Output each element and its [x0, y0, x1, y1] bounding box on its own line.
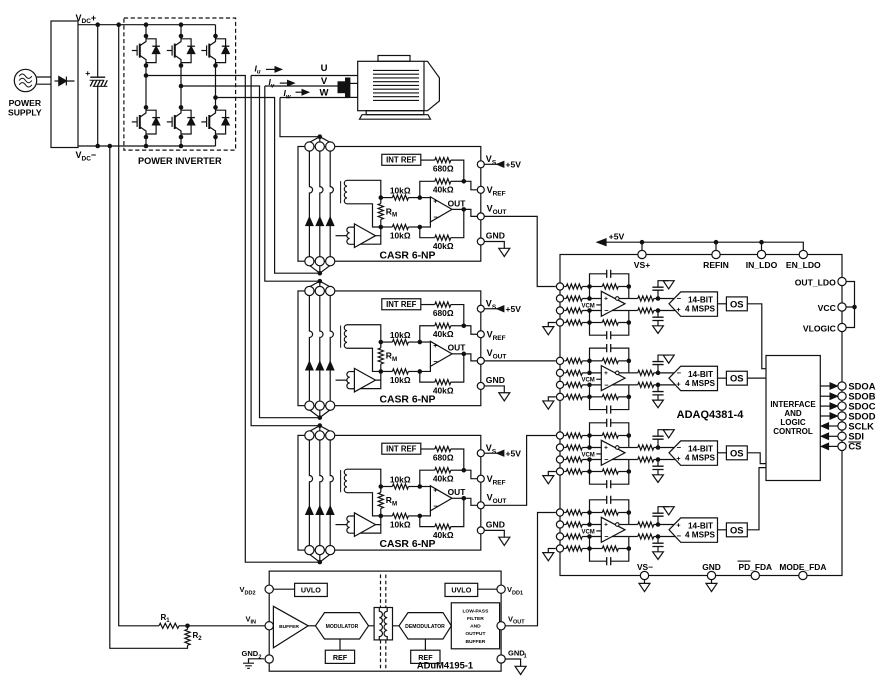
svg-text:VLOGIC: VLOGIC	[803, 323, 836, 333]
ADAQ4381-4 module boundary	[560, 255, 842, 576]
svg-text:−: −	[677, 368, 682, 377]
low-pass filter and output buffer block	[451, 603, 499, 649]
junction leg / VDC+ rail	[179, 22, 184, 27]
wire buffer to modulator	[308, 625, 315, 627]
net VDC+ rail	[78, 24, 216, 26]
current sensor U2 CASR 6-NP (phase V)	[298, 279, 521, 420]
pin VCC with label	[838, 303, 846, 311]
REF block (side 2)	[339, 639, 341, 650]
svg-text:−: −	[604, 306, 608, 315]
svg-text:+: +	[85, 68, 90, 78]
motor M1 feet/base	[366, 111, 424, 115]
wire CASR U1 VOUT to channel A input	[484, 216, 556, 286]
wire +5V drop to REFIN	[715, 242, 717, 250]
overline on CS	[848, 441, 861, 443]
svg-text:1: 1	[524, 654, 527, 660]
junction leg / VDC- rail	[144, 144, 149, 149]
pin EN_LDO with label	[799, 250, 807, 258]
AC power supply source G1	[14, 69, 36, 91]
svg-text:AND: AND	[470, 624, 481, 630]
wire CASR U2 VOUT to channel B input	[484, 360, 556, 362]
svg-text:W: W	[320, 88, 329, 99]
pin CS with input arrow and label	[829, 445, 838, 447]
svg-text:OUT_LDO: OUT_LDO	[795, 277, 836, 287]
svg-text:OUTPUT: OUTPUT	[465, 631, 485, 637]
wire phase U inverter-to-sensor (down riser)	[146, 76, 320, 563]
wire CASR U3 VOUT to channel C input	[484, 436, 556, 506]
ADC channel B	[543, 344, 748, 414]
wire +5V drop to IN_LDO	[761, 242, 763, 250]
svg-text:+: +	[604, 521, 608, 528]
wire phase U sensor-to-motor (up riser)	[251, 76, 358, 426]
pin SDOA with output arrow and label	[820, 385, 830, 387]
resistor R2 divider	[187, 626, 189, 630]
svg-text:POWER: POWER	[9, 98, 42, 108]
IGBT QVL (low side)	[167, 107, 195, 136]
svg-text:INTERFACE: INTERFACE	[770, 400, 816, 409]
isolation transformer	[374, 608, 392, 640]
junction +5V/IN_LDO	[759, 240, 764, 245]
svg-text:ADAQ4381-4: ADAQ4381-4	[677, 409, 745, 421]
wire +5V drop to VS+	[641, 242, 643, 250]
wire phase V sensor-to-motor (up riser)	[265, 86, 338, 281]
pin OUT_LDO with label	[838, 277, 846, 285]
REF block (side 1)	[424, 639, 426, 650]
wire divider to VIN	[188, 625, 266, 627]
pin VS- with ground	[640, 571, 648, 579]
svg-text:VS+: VS+	[634, 260, 650, 270]
svg-text:+: +	[604, 444, 608, 451]
svg-text:BUFFER: BUFFER	[279, 624, 299, 630]
svg-text:+5V: +5V	[609, 232, 625, 242]
svg-text:POWER INVERTER: POWER INVERTER	[138, 156, 222, 166]
svg-text:+: +	[604, 295, 608, 302]
modulator block	[316, 613, 369, 639]
pin GND1 with ground	[497, 655, 505, 663]
pin IN_LDO with label	[757, 250, 765, 258]
IGBT QVH (high side)	[167, 36, 195, 66]
svg-text:EN_LDO: EN_LDO	[786, 260, 821, 270]
net +5V rail of ADAQ	[606, 242, 803, 250]
diode D1 inside rectifier	[55, 80, 59, 82]
motor M1 lifting lug (top)	[378, 56, 410, 62]
IGBT QWH (high side)	[201, 36, 229, 66]
current sensor U1 CASR 6-NP (phase W)	[298, 134, 521, 275]
svg-text:REF: REF	[418, 653, 433, 662]
junctions on leg W	[213, 34, 218, 39]
pin GND2 with earth ground	[265, 655, 273, 663]
svg-text:−: −	[604, 380, 608, 389]
pin SDOC with output arrow and label	[820, 405, 830, 407]
motor M1 terminal connector (black)	[338, 82, 346, 93]
svg-text:−: −	[677, 531, 682, 540]
rectifier block	[51, 21, 78, 148]
resistor R1 divider	[119, 25, 159, 626]
pin MODE_FDA with label	[799, 571, 807, 579]
svg-text:REF: REF	[333, 653, 348, 662]
svg-text:−: −	[604, 532, 608, 541]
net VDC- rail	[78, 145, 216, 147]
junction +5V/VS+	[640, 240, 645, 245]
junction VDC+ / capacitor	[95, 22, 100, 27]
ADC channel D	[543, 496, 748, 566]
wire channel A OS to interface	[747, 304, 766, 369]
IGBT QUH (high side)	[132, 36, 160, 66]
pin REFIN with label	[712, 250, 720, 258]
svg-text:+: +	[676, 520, 681, 529]
junction +5V/REFIN	[714, 240, 719, 245]
pin VIN with label	[265, 622, 273, 630]
inverter leg W: wire segments	[215, 25, 217, 146]
wire OUT_LDO/VCC/VLOGIC tie	[846, 282, 854, 328]
svg-text:FILTER: FILTER	[467, 616, 484, 622]
svg-text:UVLO: UVLO	[451, 585, 471, 594]
pin VDD1 with label	[497, 585, 505, 593]
svg-text:−: −	[677, 294, 682, 303]
pin SDOB with output arrow and label	[820, 395, 830, 397]
svg-text:CONTROL: CONTROL	[773, 427, 813, 436]
interface and logic control block	[766, 356, 820, 481]
wire channel C OS to interface	[747, 453, 766, 464]
inverter leg V: wire segments	[180, 25, 182, 146]
isolation barrier dashed lines	[381, 575, 386, 669]
wire phase W sensor-to-motor (up riser)	[280, 98, 350, 137]
svg-text:LOW-PASS: LOW-PASS	[462, 608, 489, 614]
pin VOUT with label	[497, 622, 505, 630]
junction VDC+ / R1 sense riser	[116, 22, 121, 27]
IGBT QWL (low side)	[201, 107, 229, 136]
svg-text:IN_LDO: IN_LDO	[746, 260, 778, 270]
wire power supply to rectifier (2 conductors)	[37, 77, 51, 84]
junction R1/R2/VIN	[185, 624, 190, 629]
buffer amplifier	[273, 606, 308, 648]
junction leg / VDC- rail	[179, 144, 184, 149]
junctions on leg U	[144, 34, 149, 39]
svg-text:UVLO: UVLO	[301, 585, 321, 594]
svg-text:MODE_FDA: MODE_FDA	[779, 562, 826, 572]
pin VLOGIC with label	[838, 323, 846, 331]
current sensor U3 CASR 6-NP (phase U)	[298, 423, 521, 564]
UVLO block (side 1)	[445, 583, 478, 596]
wire channel D OS to interface	[747, 468, 766, 530]
IGBT QUL (low side)	[132, 107, 160, 136]
wire phase W inverter-to-sensor (down riser)	[216, 98, 320, 274]
pin VDD2 with label	[265, 585, 273, 593]
power inverter dashed enclosure	[124, 18, 236, 150]
svg-text:MODULATOR: MODULATOR	[326, 624, 359, 630]
motor M1 cooling fins	[373, 69, 419, 71]
svg-text:SUPPLY: SUPPLY	[8, 108, 42, 118]
demodulator block	[399, 613, 451, 639]
ADuM4195-1 package outline	[269, 571, 501, 671]
DC bus capacitor C1	[97, 25, 99, 77]
wire phase V inverter-to-sensor (down riser)	[181, 86, 320, 418]
svg-text:LOGIC: LOGIC	[780, 418, 806, 427]
svg-text:U: U	[321, 63, 328, 74]
svg-text:GND: GND	[242, 649, 259, 658]
svg-text:+: +	[676, 379, 681, 388]
svg-text:+: +	[676, 454, 681, 463]
svg-text:AND: AND	[784, 409, 802, 418]
svg-text:REFIN: REFIN	[703, 260, 729, 270]
motor M1 body	[358, 61, 424, 110]
svg-text:2: 2	[258, 655, 261, 661]
svg-text:DEMODULATOR: DEMODULATOR	[405, 624, 445, 630]
svg-text:−: −	[677, 443, 682, 452]
pin GND with ground	[707, 571, 715, 579]
svg-text:+: +	[676, 305, 681, 314]
pin SCLK with input arrow and label	[829, 425, 838, 427]
motor M1 end bell (right)	[424, 61, 439, 110]
wire channel B OS to interface	[747, 377, 766, 379]
svg-text:PD_FDA: PD_FDA	[739, 562, 773, 572]
svg-text:GND: GND	[702, 562, 721, 572]
junction VCC tie	[852, 305, 857, 310]
junction leg / VDC+ rail	[144, 22, 149, 27]
svg-text:+: +	[604, 370, 608, 377]
inverter leg U: wire segments	[145, 25, 147, 146]
overline on PD	[738, 560, 751, 562]
junction VDC- / R2 return riser	[108, 144, 113, 149]
svg-text:VCC: VCC	[818, 303, 836, 313]
pin SDOD with output arrow and label	[820, 415, 830, 417]
junction VDC- / capacitor	[95, 144, 100, 149]
pin PD_FDA with label	[751, 571, 759, 579]
svg-text:−: −	[604, 455, 608, 464]
svg-text:BUFFER: BUFFER	[465, 639, 485, 645]
ADC channel C	[543, 419, 748, 489]
ADC channel A	[543, 270, 748, 340]
junctions on leg V	[179, 34, 184, 39]
svg-text:VS−: VS−	[637, 562, 653, 572]
svg-text:V: V	[321, 76, 328, 87]
wire ADuM VOUT to channel D input	[505, 513, 556, 626]
pin VS+ with label	[638, 250, 646, 258]
motor M1 shaft collar	[350, 83, 358, 97]
pin SDI with input arrow and label	[829, 435, 838, 437]
UVLO block (side 2)	[273, 588, 294, 590]
